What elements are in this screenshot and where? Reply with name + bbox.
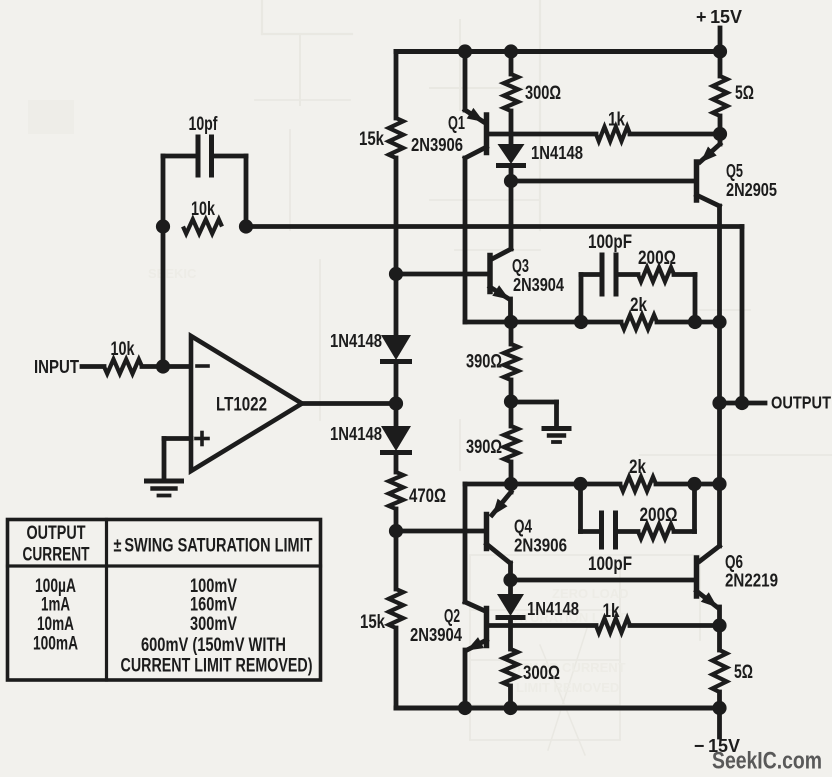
svg-text:2k: 2k [629,457,646,478]
node: rail / 300-ohm bottom [503,701,517,715]
wire: cap to 200-ohm (upper) [616,272,638,277]
wire: 10k to inverting node [142,364,191,369]
svg-text:600mV (150mV WITH: 600mV (150mV WITH [141,634,286,656]
wire: op-amp output to node [302,401,396,406]
node: 2k / Q5 collector [712,315,726,329]
svg-text:INPUT: INPUT [34,356,80,377]
diode D1 1N4148 (upper clamp) [380,335,412,362]
svg-text:390Ω: 390Ω [466,352,502,373]
diode D2 1N4148 (lower clamp) [380,426,412,453]
wire: D1 cathode to op-amp output node [394,364,399,404]
label Q6 [725,551,743,572]
wire: output stub [720,401,766,406]
resistor 10k (input) [104,359,142,373]
label 100pF lower [588,554,632,575]
label D4 1N4148 [527,598,579,619]
wire: Q3 base line from node A [396,272,487,277]
wire: feedback line to output [246,224,742,229]
svg-text:15k: 15k [359,129,384,150]
wire: node B to 15k lower [394,531,399,589]
node: 2k / Q6 collector [712,477,726,491]
label Q2 2N3904 [410,624,463,645]
capacitor 100pF (lower) [602,513,616,547]
wire: 15k lower to bottom rail [394,628,399,708]
svg-text:2N3906: 2N3906 [411,134,463,155]
svg-text:± SWING SATURATION LIMIT: ± SWING SATURATION LIMIT [114,536,313,557]
label -15V [694,735,741,756]
table row 100mA [33,633,286,657]
svg-text:300Ω: 300Ω [523,663,560,684]
diode D3 1N4148 (upper bias) [496,144,526,166]
resistor 200 ohm (lower) [638,524,674,538]
label 1k upper [608,110,625,131]
label 10k input [111,339,135,360]
resistor 470 ohm [389,472,403,509]
svg-text:200Ω: 200Ω [638,248,676,269]
label 10pf [189,114,218,135]
svg-text:1k: 1k [608,110,625,131]
wire: Q2 base line to 1k [489,623,596,628]
label 15k upper [359,129,384,150]
wire: upper cap branch right riser [674,275,695,323]
transistor Q3 2N3904 (collector+bar+emitter) [490,249,511,322]
svg-text:2N2219: 2N2219 [725,570,778,591]
wire: 5-ohm to bottom rail [717,692,722,708]
wire: 2k upper line left [511,320,621,325]
node: Q6 emitter / 5-ohm / 1k [712,618,726,632]
label Q5 [726,160,743,181]
label 2k lower [629,457,646,478]
wire: Q6 base line [511,578,695,583]
resistor 15k (upper) [389,118,403,158]
op-amp U1 LT1022 [191,336,302,471]
resistor 2k (lower) [620,477,656,491]
wire: Q5 base line [511,179,694,184]
resistor 390 ohm (upper) [504,344,518,380]
label 5 ohm lower [734,662,753,683]
node: rail / 5-ohm column [713,44,727,58]
resistor 10k (feedback) [183,219,222,233]
svg-text:470Ω: 470Ω [409,486,446,507]
node: rail / Q1 emitter column [458,44,472,58]
node A: 15k / Q3 base / diode string [389,267,403,281]
wire: node A to D1 anode [394,274,399,336]
table row 1mA [41,594,237,616]
resistor 1k (lower) [596,618,630,632]
resistor 15k (lower) [389,589,403,628]
svg-text:+ 15V: + 15V [696,6,743,27]
label 100pF upper [588,232,632,253]
svg-text:Q5: Q5 [726,160,743,181]
svg-text:CURRENT: CURRENT [23,544,90,566]
wire: Q5-base node down to Q3 collector [509,181,514,249]
wire: 390 lower to Q4 emitter node [509,462,514,484]
label Q4 [514,516,533,537]
label 300 ohm upper [525,83,561,104]
table: swing saturation limit box [8,520,321,681]
wire: D2 cathode to 470-ohm [394,455,399,472]
svg-text:100mA: 100mA [33,633,78,655]
svg-text:OUTPUT: OUTPUT [27,522,86,544]
transistor Q5 2N2905 (emitter+bar+collector) [697,134,721,403]
diode D4 1N4148 (lower bias) [496,594,526,618]
wire: Q4 emitter node to Q2 collector [463,484,468,602]
table header OUTPUT CURRENT [23,522,90,566]
svg-text:2N3904: 2N3904 [410,624,463,645]
label 1k lower [603,601,620,622]
op-amp minus pin mark [197,364,208,368]
wire: left cap riser [161,156,166,227]
node: op-amp output [389,396,403,410]
node: output / Q5-Q6 collectors [712,396,726,410]
label Q3 2N3904 [513,274,565,295]
svg-text:CURRENT LIMIT REMOVED): CURRENT LIMIT REMOVED) [121,655,313,677]
resistor 300 ohm (upper) [504,74,518,111]
svg-text:2N3906: 2N3906 [514,535,567,556]
label 10k feedback [191,199,215,220]
svg-text:Q3: Q3 [512,255,529,276]
resistor 200 ohm (upper) [638,267,674,281]
label LT1022 [216,395,267,416]
wire: rail to Q1 emitter [463,52,468,111]
svg-text:Q1: Q1 [448,112,465,133]
label D1 1N4148 [330,330,382,351]
node: feedback right [239,219,253,233]
wire: rail to 5-ohm [718,52,723,77]
svg-text:1N4148: 1N4148 [330,330,382,351]
svg-text:Q4: Q4 [514,516,533,537]
wire: Q2 collector line to Q4 emitter node [465,482,511,487]
label 200 ohm upper [638,248,676,269]
node: rail / Q2 emitter [458,701,472,715]
node: cap branch right (lower) [687,477,701,491]
wire: +15V supply stub [718,28,723,52]
transistor Q2 2N3904 (collector+bar+emitter) [465,602,487,708]
transistor Q4 2N3906 (emitter+bar+collector) [487,484,512,580]
wire: 390 upper to mid node [509,380,514,402]
svg-text:LT1022: LT1022 [216,395,267,416]
svg-text:OUTPUT: OUTPUT [771,393,831,413]
label Q5 2N2905 [726,179,777,200]
wire: midpoint to 390 lower [509,402,514,427]
resistor 2k (upper) [621,315,657,329]
label Q1 [448,112,465,133]
node: cap branch left (upper) [574,315,588,329]
wire: feedback drop at output [740,227,745,404]
table row 100uA [35,575,237,597]
wire: node to 390 upper [509,322,514,344]
label Q3 [512,255,529,276]
wire: lower cap branch left riser [581,484,602,532]
svg-text:15k: 15k [360,612,385,633]
svg-text:SeekIC.com: SeekIC.com [712,748,822,775]
watermark SeekIC.com [712,748,822,775]
label 5 ohm upper [735,83,754,104]
wire: upper cap branch left riser [581,275,602,323]
capacitor 10pf [198,137,212,175]
node: Q3 emitter / 390 / 2k [504,315,518,329]
wire: rail to 15k R top [394,52,399,119]
wire: Q1 collector line to Q3 emitter node [465,320,511,325]
wire: 1k to Q5 emitter node [630,132,720,137]
label 300 ohm lower [523,663,560,684]
capacitor 100pF (upper) [602,255,616,294]
transistor Q1 2N3906 (emitter+bar+collector) [465,108,487,322]
label Q1 2N3906 [411,134,463,155]
svg-text:SEEKIC: SEEKIC [148,266,197,281]
svg-text:200Ω: 200Ω [640,505,678,526]
svg-text:2k: 2k [630,295,647,316]
label 390 ohm upper [466,352,502,373]
wire: bottom -15V rail [396,706,720,711]
wire: 1k to Q6 emitter node [630,623,720,628]
wire: D3 cathode to Q5 base node [509,169,514,181]
wire: Q6 emitter node to 5-ohm [717,626,722,651]
node: cap branch right (upper) [688,315,702,329]
ground (op-amp + input) [147,481,182,496]
resistor 5 ohm (upper) [713,76,727,116]
label Q2 [444,605,460,626]
label +15V [696,6,743,27]
node: Q6 base node [503,573,517,587]
wire: 2k upper line right [657,320,720,325]
table row 100mA cont [121,655,313,677]
wire: node B to Q4 base [396,529,486,534]
svg-text:1N4148: 1N4148 [330,423,382,444]
label 390 ohm lower [466,437,502,458]
svg-text:390Ω: 390Ω [466,437,502,458]
op-amp plus pin mark [196,433,208,445]
label 470 ohm [409,486,446,507]
svg-text:10pf: 10pf [189,114,218,135]
wire: 300-ohm to D3 [509,111,514,145]
svg-text:2N2905: 2N2905 [726,179,777,200]
svg-text:Q2: Q2 [444,605,460,626]
wire: top +15V rail [396,49,720,54]
resistor 1k (upper) [596,127,630,141]
svg-text:300mV: 300mV [190,613,237,635]
svg-text:2N3904: 2N3904 [513,274,565,295]
label 2k upper [630,295,647,316]
svg-text:300Ω: 300Ω [525,83,561,104]
svg-text:100pF: 100pF [588,554,632,575]
wire: rail to 300-ohm upper [509,52,514,75]
svg-text:5Ω: 5Ω [734,662,753,683]
wire: right cap riser [244,156,249,227]
transistor Q6 2N2219 (collector+bar+emitter) [697,546,720,626]
wire: 2k lower line left [511,482,620,487]
label 200 ohm lower [640,505,678,526]
wire: 470-ohm to node B [394,509,399,531]
svg-text:10k: 10k [191,199,215,220]
label Q4 2N3906 [514,535,567,556]
wire: -15V supply stub [717,708,722,737]
node: Q5 emitter / 5-ohm / 1k [713,127,727,141]
svg-text:10k: 10k [111,339,135,360]
node: 390 midpoint [504,394,518,408]
resistor 5 ohm (lower) [712,650,726,692]
table row 10mA [37,613,237,635]
wire: midpoint to ground [511,402,557,427]
wire: inverting node up to feedback node [161,227,166,367]
label OUTPUT [771,393,831,413]
wire: lower cap branch right riser [674,484,695,532]
wire: cap top-left wire [163,154,198,159]
resistor 390 ohm (lower) [504,426,518,462]
node: rail / 5-ohm bottom [712,701,726,715]
node: feedback left [156,219,170,233]
label 15k lower [360,612,385,633]
node: inverting input [156,359,170,373]
svg-text:1N4148: 1N4148 [527,598,579,619]
node: output / feedback [735,396,749,410]
node: cap branch left (lower) [573,477,587,491]
label D2 1N4148 [330,423,382,444]
svg-text:1N4148: 1N4148 [531,142,583,163]
table header SWING SATURATION LIMIT [114,536,313,557]
wire: 2k lower line right [656,482,720,487]
svg-text:100pF: 100pF [588,232,632,253]
node: Q5 base node [504,174,518,188]
node B: 470 / Q4 base / 15k [389,524,403,538]
wire: D4 cathode through base line to 300-ohm [508,621,513,649]
svg-text:5Ω: 5Ω [735,83,754,104]
svg-text:1k: 1k [603,601,620,622]
resistor 300 ohm (lower) [503,649,517,686]
label INPUT [34,356,80,377]
wire: cap to 200-ohm (lower) [616,529,639,534]
wire: 300-ohm to bottom rail [508,686,513,708]
wire: 5-ohm to Q5 node [718,116,723,134]
wire: input to 10k [82,364,104,369]
wire: Q6-base node to D4 [508,580,513,595]
node: rail / 300-ohm column [504,44,518,58]
node: Q4 emitter / 390 / 2k [504,477,518,491]
wire: Q5 collector to Q6 collector (output column) [717,403,722,546]
wire: Q1 base line to 1k [487,132,596,137]
wire: 15k to node A [394,158,399,274]
ground (output mid reference) [544,429,569,443]
wire: cap top-right wire [212,154,247,159]
wire: output node to D2 anode [394,404,399,428]
label D3 1N4148 [531,142,583,163]
label Q6 2N2219 [725,570,778,591]
wire: non-inverting input to ground [164,439,191,480]
